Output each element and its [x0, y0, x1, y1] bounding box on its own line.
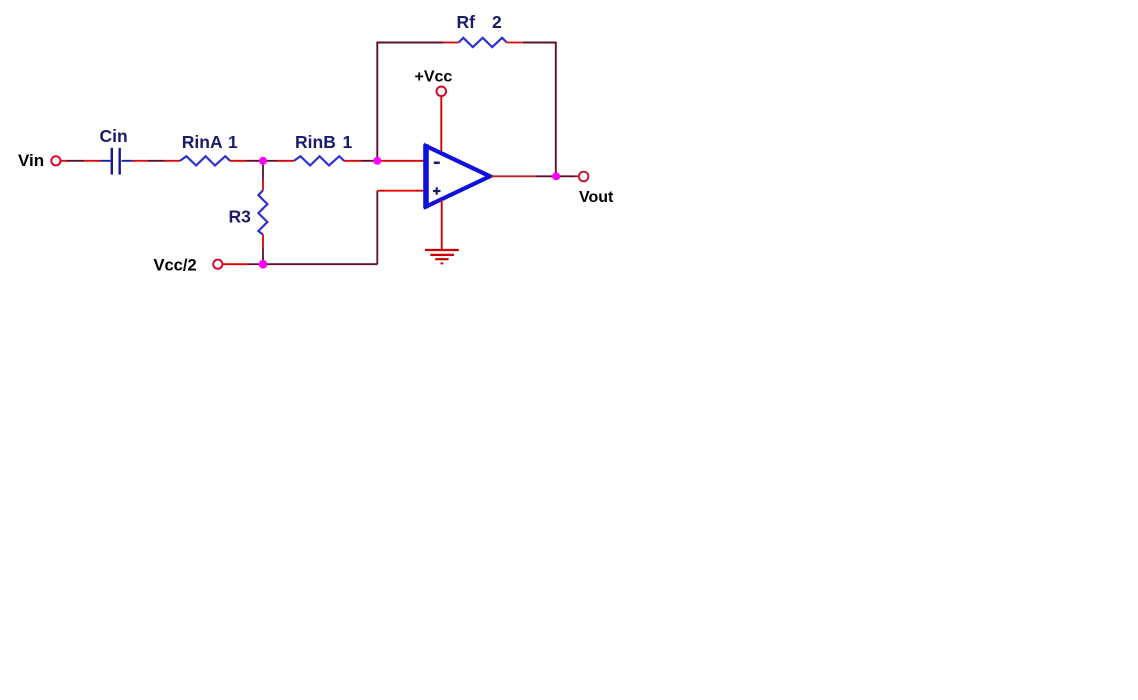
wire Vcc/2 terminal pin (red)	[223, 263, 248, 265]
svg-text:R3: R3	[229, 207, 252, 227]
wire node A down (maroon)	[262, 161, 264, 180]
wire Cin left pin (red)	[84, 160, 100, 162]
wire R3 to node Vcc/2 (maroon)	[262, 249, 264, 265]
wire Cin right pin (red)	[132, 160, 148, 162]
wire feedback top left (maroon)	[376, 42, 443, 44]
wire Vin to Cin (red pin)	[61, 160, 67, 162]
wire Rf left pin (red)	[444, 42, 459, 44]
capacitor Cin	[100, 148, 132, 175]
node B junction	[373, 157, 381, 165]
wire plus input pin (red)	[377, 190, 424, 192]
wire output to node (maroon)	[536, 175, 556, 177]
svg-text:Cin: Cin	[100, 126, 128, 146]
svg-text:Vout: Vout	[579, 189, 614, 206]
wire RinB right pin (red)	[344, 160, 361, 162]
wire output (brick red)	[491, 175, 536, 177]
wire minus input pin (red)	[377, 160, 424, 162]
svg-text:2: 2	[492, 12, 502, 32]
node Vout terminal	[579, 172, 589, 182]
svg-text:RinB: RinB	[295, 132, 336, 152]
node Vcc/2 terminal	[213, 260, 222, 269]
resistor Rf	[459, 38, 507, 47]
resistor RinA	[180, 156, 230, 165]
wire Vcc/2 run right (maroon)	[263, 263, 377, 265]
svg-text:+Vcc: +Vcc	[415, 68, 453, 85]
wire node A to RinB (maroon)	[263, 160, 277, 162]
svg-text:1: 1	[228, 132, 238, 152]
wire RinB to node B (maroon)	[361, 160, 377, 162]
wire R3 top pin (red)	[262, 180, 264, 191]
wire Vin to Cin (maroon)	[67, 160, 84, 162]
node A junction	[259, 157, 267, 165]
svg-text:1: 1	[343, 132, 353, 152]
wire RinA right pin (red)	[230, 160, 246, 162]
wire feedback up (maroon)	[376, 43, 378, 161]
wire Rf right pin (red)	[507, 42, 523, 44]
wire to node Vcc2 (maroon)	[248, 263, 263, 265]
wire Cin to RinA (maroon)	[148, 160, 165, 162]
resistor RinB	[294, 156, 344, 165]
node Vcc/2 junction	[259, 260, 268, 269]
node +Vcc terminal	[437, 87, 447, 97]
ground	[425, 250, 459, 263]
resistor R3	[258, 190, 267, 234]
wire up to plus input (maroon)	[376, 191, 378, 265]
wire RinB left pin (red)	[277, 160, 294, 162]
wire RinA to node A (maroon)	[247, 160, 264, 162]
node output junction	[552, 172, 560, 180]
svg-text:RinA: RinA	[182, 132, 223, 152]
wire ground stem (red)	[441, 200, 443, 250]
wire feedback down right (maroon)	[555, 42, 557, 177]
wire R3 bottom pin (red)	[262, 235, 264, 249]
wire feedback top right (maroon)	[523, 42, 556, 44]
node Vin terminal	[51, 156, 60, 165]
wire RinA left pin (red)	[165, 160, 180, 162]
op-amp U1	[426, 144, 490, 208]
svg-text:Vcc/2: Vcc/2	[154, 257, 197, 275]
svg-text:Vin: Vin	[18, 151, 44, 170]
wire Vout pin (red)	[575, 175, 579, 177]
svg-text:Rf: Rf	[457, 12, 476, 32]
wire node to Vout (maroon)	[556, 175, 574, 177]
wire +Vcc down (red)	[440, 97, 442, 153]
